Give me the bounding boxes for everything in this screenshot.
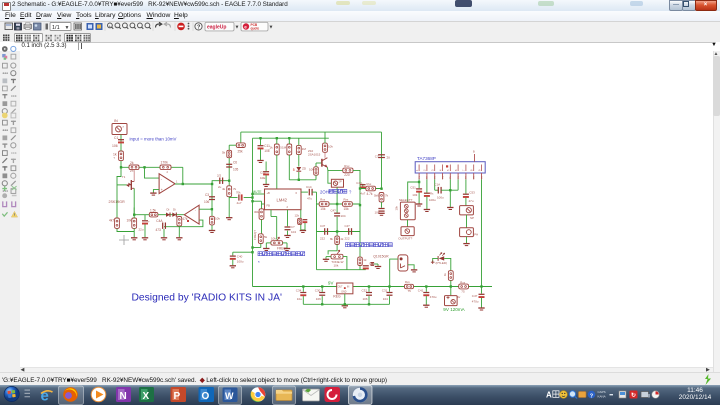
twin-T mid line [316,230,360,232]
twin-T bottom line [316,268,365,270]
wire pot TONE right [343,256,347,269]
capacitor C5 2u2 series [218,177,220,183]
wire pot right terminal [282,241,287,243]
series cap before Q2 [370,261,374,263]
diode D1 [166,212,170,216]
resistor R13 [286,144,291,155]
ground under C9 [284,234,290,236]
resistor R22 120k and cap [299,209,301,218]
power rail B [252,137,328,139]
capacitor C18 output corner [362,264,368,266]
LED D3 [438,256,444,260]
left toolbar icons [2,46,18,217]
connector X1 IN [112,123,127,134]
svg-text:▼: ▼ [65,25,70,31]
junction mid column [228,179,230,181]
label C13 [265,161,267,170]
taskbar icon OneNote [116,387,131,402]
capacitor C40 100u [232,251,252,253]
svg-text:W: W [225,391,234,401]
transistor Q2 boxed [398,254,408,270]
wire mid column x228 [228,145,230,217]
wire R12 to LM top pin [275,138,277,144]
resistor R3 170k feedback [160,165,171,170]
ground under C41 [423,304,429,306]
capacitor C1A bootstrap [433,179,435,190]
junction battery node [449,285,451,287]
resistor R19 [379,192,384,202]
resistor R16 collector [324,152,326,157]
wire pin5 ground [449,179,451,207]
ground under R7 [176,236,182,238]
TA7368 top stub [473,154,475,162]
status bar DRC lightning [702,374,714,385]
capacitor C7 1u [378,153,385,155]
wire rail A right drop [380,132,382,189]
svg-text:X: X [143,391,150,402]
capacitor C15 104 [336,204,338,213]
capacitor C2 electrolytic [144,214,146,219]
resistor R6 1k5 [149,212,158,216]
resistor R18 4.7k [365,186,375,191]
wire IN down [120,134,122,167]
ground mid column [226,216,232,218]
junction output node [181,182,183,184]
menu bar [0,11,720,22]
wire R5 column [133,207,135,218]
resistor R29 1k [448,270,453,280]
ground under C11 [257,159,263,161]
capacitor C31 [388,286,390,291]
resistor R12 [274,144,279,155]
wire pin6 riser [457,179,459,190]
note tone adjust left [258,251,262,255]
wire LED right to R29 [444,258,451,270]
capacitor C11 10E [259,138,261,145]
ground under C51 [415,203,421,205]
wire jack ground [465,236,467,243]
wire left bias column [117,167,134,231]
resistor R15 base [313,166,318,174]
TA7368 pin stubs [418,173,420,179]
wire emitter branch to trimmer [327,170,331,183]
ground rail [303,303,389,305]
wire input row [121,166,183,168]
resistor R26 [357,257,362,265]
wire JFET drain up [133,171,135,181]
capacitor C6 105 [226,163,232,165]
svg-text:P: P [174,391,181,402]
toolbar row 2 [0,33,720,42]
resistor R23 15k [319,201,329,206]
svg-text:▼: ▼ [269,25,274,31]
LM42 right pin row C14 [301,191,308,193]
svg-text:N: N [120,391,127,402]
junction bias node [133,213,135,215]
capacitor C17 222 [347,228,349,235]
regulator REG box [336,283,352,294]
wire to right vertical [353,170,360,205]
diode D2 [172,212,176,216]
taskbar button Explorer folder [273,386,296,405]
resistor R2 2k2 [129,165,139,170]
wire REG gnd pin [343,293,345,304]
svg-text:▼: ▼ [235,25,240,31]
wire rail A left drop [239,132,241,145]
taskbar icon Excel [139,387,154,402]
vertical scrollbar [713,51,720,372]
capacitor C3 106 [209,195,215,197]
svg-text:quote: quote [251,27,260,31]
svg-text:KANA: KANA [598,395,606,399]
junction rail B R12 [275,137,277,139]
capacitor C30 [321,285,323,287]
wire emitter to R220 [327,167,342,170]
wire coupling riser [212,180,229,183]
ground under R8 [208,229,214,231]
long left vertical net [251,138,253,286]
taskbar icon red app [325,387,341,402]
wire R13 down [288,138,290,144]
ground under C42 [478,307,484,309]
wire 4u7 coupling row [228,195,230,198]
note tone adjust right [345,242,349,246]
ground under C40 [229,264,235,266]
ground under C52 [423,208,429,210]
trimmer TONE pot [331,254,343,259]
svg-text:CAPS: CAPS [598,390,606,394]
twin-T top line [316,203,360,205]
wire 4k7 row [360,187,382,189]
ground under C4A [160,236,166,238]
twin-T right vertical [359,205,361,270]
resistor R4 [114,218,119,228]
taskbar icon PowerPoint [171,387,187,402]
ground at op-amp1 [150,192,156,194]
ground under R5 [131,236,137,238]
capacitor C16 222 [323,228,325,235]
battery B1 9V [449,286,451,295]
wire diode row [157,213,183,215]
command/coordinate row [20,42,713,53]
taskbar grip [25,390,31,391]
wire op-amp2 lower input [164,220,203,227]
wire pot TONE left ground [326,255,331,257]
wire trimmer down to twin-T [336,187,338,204]
wire pot left terminal [266,241,271,243]
trimmer CP1 [331,179,343,187]
zener diode ZD1 [296,167,301,171]
resistor R5 [131,218,136,228]
capacitor C53 pin7 [464,179,466,193]
left command toolbar [0,51,21,372]
resistor R10 100k [226,185,231,196]
jack PH1 box [459,227,473,236]
capacitor C41 470u [425,286,427,291]
LM42 bottom pin 1 [270,209,272,216]
wire JFET source down [133,188,135,214]
transistor Q5 2SK19 JFET [130,180,132,190]
wire base row [315,163,317,167]
titlebar glass reflections [336,1,350,6]
capacitor C12 4u7 [237,194,239,200]
svg-text:eagleUp: eagleUp [207,24,226,30]
taskbar icon Outlook [199,387,215,402]
power rail 9V [252,285,336,287]
capacitor C14 47u [308,188,310,195]
wire pin1 to select [418,179,420,182]
wire op-amp2 input chain [134,213,149,215]
toolbar row1 icons [5,23,13,30]
wire C3 column [211,184,213,230]
taskbar active EAGLE button [349,386,373,405]
toolbar row 1 [0,22,720,35]
toolbar row2 icons [3,35,5,37]
origin crosshair [119,235,129,245]
junction C3 node [210,182,212,184]
svg-text:↻: ↻ [631,392,636,399]
wire select to output [406,219,408,226]
junction rail B C11 [259,137,261,139]
connector SELECT box [400,202,415,220]
ground under C13 [262,183,268,185]
resistor R1 [118,151,123,161]
resistor R14 1M [296,145,301,154]
wire pin9 long drop [480,179,482,286]
capacitor C51 [418,182,420,188]
transistor Q1 2SC1815 [320,158,322,166]
capacitor C1 [118,138,124,140]
wire Q2 base drop to rail [389,259,397,286]
resistor R28 series rail [458,284,468,289]
wire SP1 to jack [465,214,467,227]
connector OUTPUT box [401,226,414,235]
capacitor C44 [361,183,363,188]
ground pot left [263,247,269,249]
taskbar button Firefox [59,386,84,405]
ground pot right [283,247,289,249]
resistor R21 FREQ column [258,233,263,243]
op-amp U1A [159,173,175,193]
wire op-amp2 upper input [199,208,212,210]
resistor R17 220 [342,168,352,173]
LM42 left pins [261,193,264,195]
wire JFET gate [117,183,127,185]
resistor R24 15k [342,201,352,206]
resistor R20 under LM left [260,201,262,209]
wire R14 to zener [297,138,299,145]
capacitor C9 104 under LM [286,209,288,226]
status bar [0,372,720,386]
capacitor C8 [380,202,382,208]
node N2 junction [143,166,145,168]
wire op-amp1 +in to ground [153,189,159,192]
wire Q2 emitter ground [407,264,413,269]
op-amp U1B mirrored [184,205,199,224]
horizontal scrollbar [20,367,713,374]
capacitor C32 [367,285,369,287]
wire op-amp1 output [175,183,212,185]
junction rail B R13 [288,137,290,139]
wire op-amp1 -in [144,167,159,178]
trimmer FREQ pot [275,216,277,239]
capacitor C4A 473 [161,222,163,228]
speaker SP1 box [459,205,473,214]
capacitor C42 470u right [480,286,482,293]
IC U2 LM42 box [264,189,301,210]
twin-T left vertical [315,202,317,270]
resistor R11 25k [236,142,245,147]
TA7368 internal pin marks [418,164,420,171]
ground under C2 [141,236,147,238]
tray IME han [553,391,559,398]
ground under C8 [378,212,384,214]
power rail A [240,131,381,133]
capacitor C52 pin2 [425,179,427,192]
taskbar [0,385,720,405]
EAGLE window title bar [0,0,720,12]
ground under R22 [299,229,305,231]
taskbar icon Chrome [251,387,266,402]
resistor R25 8k2 [336,231,338,236]
resistor R7 47k [176,216,181,226]
svg-text:A: A [546,391,552,400]
IC U3 TA7368 box [415,161,485,172]
capacitor C34 [302,285,304,287]
tray icons [560,391,568,399]
wire C14 down to twin-T [315,192,317,202]
wire LED left terminal [432,258,437,262]
taskbar icon mail [303,389,320,401]
wire feedback drop [181,167,183,184]
schematic canvas [20,51,713,367]
wire zener bottom row [289,178,316,180]
resistor R8 [209,216,214,225]
taskbar icon player [91,387,106,402]
svg-text:O: O [202,391,210,402]
node N1 junction [119,166,121,168]
ground REG [341,304,347,306]
svg-text:1/1: 1/1 [52,25,60,31]
wire R25 to pot wiper [328,244,337,254]
resistor R27 series rail [404,284,413,288]
taskbar button Word [219,386,242,405]
resistor R9 [226,150,231,157]
